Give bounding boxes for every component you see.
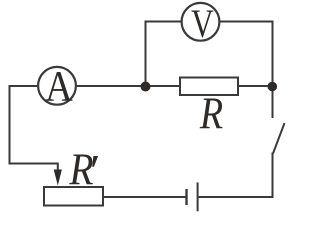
rheostat R' box (44, 187, 103, 206)
node junction right (268, 82, 278, 92)
wire (146, 22, 182, 87)
svg-text:′: ′ (87, 146, 98, 197)
wire (77, 85, 146, 87)
node junction left (141, 82, 151, 92)
svg-text:V: V (191, 1, 214, 46)
switch S blade (273, 123, 285, 154)
wire (220, 22, 273, 87)
ammeter A1 circle (38, 67, 76, 105)
wire (103, 196, 187, 198)
resistor R box (180, 78, 238, 96)
voltmeter V1 circle (182, 3, 220, 41)
wire (146, 85, 181, 87)
rheostat wiper arrow (54, 170, 62, 186)
wire (10, 86, 58, 172)
wire (238, 85, 273, 87)
battery positive plate (long) (197, 182, 199, 211)
wire (199, 153, 273, 198)
svg-text:R: R (199, 89, 223, 139)
battery negative plate (short) (185, 189, 187, 205)
wire (272, 86, 274, 118)
svg-text:A: A (45, 61, 73, 110)
